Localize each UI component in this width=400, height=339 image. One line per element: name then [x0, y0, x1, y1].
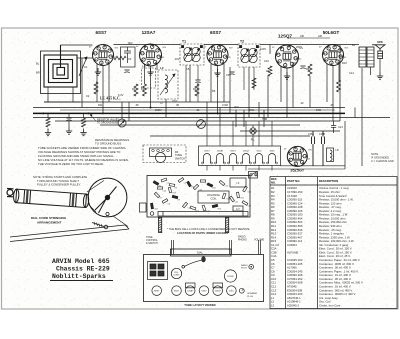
wire [47, 113, 49, 118]
svg-text:C2: C2 [167, 182, 169, 184]
wire [281, 165, 346, 167]
svg-text:VOL.: VOL. [174, 272, 179, 274]
tone cap C13 [331, 121, 336, 133]
junction [102, 112, 104, 114]
svg-text:250V: 250V [296, 45, 302, 49]
under-chassis captions [167, 227, 250, 235]
svg-text:R11: R11 [98, 103, 103, 107]
svg-text:DIAL: DIAL [197, 251, 203, 255]
svg-text:3: 3 [327, 54, 328, 56]
part p11 [190, 206, 196, 210]
svg-text:.05: .05 [135, 103, 139, 107]
under-chassis parts box [147, 176, 250, 218]
part p6 [200, 180, 205, 182]
svg-text:R4: R4 [193, 87, 197, 91]
svg-text:.05: .05 [330, 103, 334, 107]
resistor R2 [134, 84, 138, 96]
svg-text:IF GROUNDED: IF GROUNDED [371, 156, 389, 160]
title underline [50, 280, 113, 282]
svg-text:6: 6 [107, 52, 108, 54]
svg-text:T2: T2 [240, 40, 244, 44]
svg-text:7: 7 [222, 56, 223, 58]
svg-text:AR: AR [300, 34, 304, 38]
svg-text:2: 2 [212, 58, 213, 60]
speaker SPK [372, 45, 385, 49]
wire [271, 121, 273, 146]
svg-text:2: 2 [98, 58, 99, 60]
ground [95, 68, 101, 75]
svg-text:NO.: NO. [271, 180, 276, 184]
svg-text:R23: R23 [227, 198, 230, 200]
svg-text:C24: C24 [163, 190, 166, 192]
svg-text:70M: 70M [262, 117, 267, 121]
tube V6 [284, 146, 313, 166]
part p18 [242, 201, 248, 206]
arrow to buss [90, 115, 96, 122]
svg-text:5: 5 [300, 152, 301, 154]
wire [245, 166, 247, 171]
svg-text:C16: C16 [248, 191, 251, 193]
svg-text:3: 3 [280, 55, 281, 57]
part p1 [153, 181, 159, 186]
svg-text:2: 2 [292, 158, 293, 160]
parts table header [271, 177, 338, 184]
svg-text:1: 1 [296, 161, 297, 163]
ground [80, 129, 86, 136]
svg-text:4: 4 [283, 51, 284, 53]
wire [108, 64, 110, 102]
svg-text:C22: C22 [235, 201, 238, 203]
svg-text:R3: R3 [175, 187, 177, 189]
svg-text:7: 7 [156, 56, 157, 58]
part p7 [154, 192, 159, 197]
resistor R5 [114, 56, 126, 60]
wire [156, 63, 158, 70]
note text block [38, 138, 129, 166]
coupling box [121, 47, 136, 67]
svg-text:PULLEY & CONDENSER PULLEY.: PULLEY & CONDENSER PULLEY. [37, 183, 81, 187]
svg-text:R7: R7 [266, 69, 270, 73]
svg-text:R13: R13 [218, 208, 221, 210]
svg-text:Chassis RE-229: Chassis RE-229 [56, 266, 110, 273]
wire [258, 121, 260, 146]
svg-text:6SS7: 6SS7 [95, 30, 107, 35]
wire [197, 83, 199, 103]
svg-text:Noblitt-Sparks: Noblitt-Sparks [52, 273, 106, 280]
svg-text:A35045-2: A35045-2 [287, 303, 300, 307]
svg-text:IM: IM [176, 103, 179, 107]
svg-text:C10: C10 [264, 59, 269, 63]
svg-text:C13: C13 [338, 125, 343, 129]
side box left [140, 203, 147, 212]
wire [248, 67, 250, 118]
resistor R13 [94, 82, 98, 94]
part p15 [236, 192, 239, 198]
wire [248, 168, 345, 170]
post [172, 240, 174, 255]
wire [210, 64, 212, 102]
ground buss [33, 112, 345, 114]
svg-text:PART NO.: PART NO. [287, 179, 300, 183]
svg-text:3: 3 [97, 54, 98, 56]
part p22 [230, 196, 235, 202]
wire [292, 66, 294, 108]
chassis bar [158, 212, 248, 217]
wire [102, 66, 104, 114]
capacitor C6 [66, 118, 71, 121]
wire [206, 166, 208, 171]
IF transformer T1 [180, 44, 204, 65]
electrolytic C15B [322, 131, 325, 166]
svg-text:6: 6 [155, 51, 156, 53]
wire [240, 130, 340, 132]
svg-text:3: 3 [144, 54, 145, 56]
svg-text:.0001: .0001 [248, 108, 255, 112]
switch SW [250, 172, 258, 176]
bias cell box L4 [142, 68, 156, 88]
title ARVIN Model 665 [52, 258, 110, 280]
tone control caption [146, 236, 158, 245]
svg-text:L3: L3 [271, 303, 275, 307]
tuning shaft drum [13, 189, 89, 208]
tuning arrow [79, 57, 87, 76]
wire [232, 121, 234, 146]
svg-text:4: 4 [147, 50, 148, 52]
svg-text:CONT.: CONT. [173, 275, 180, 277]
svg-text:100V: 100V [260, 47, 266, 51]
svg-text:6: 6 [337, 52, 338, 54]
svg-text:ARRANGEMENT: ARRANGEMENT [37, 220, 62, 224]
part p5 [187, 181, 192, 187]
wire [326, 64, 328, 102]
svg-text:AVC: AVC [234, 105, 239, 109]
resistor R9 [82, 118, 86, 127]
wire [204, 44, 238, 46]
svg-text:OSC: OSC [172, 99, 178, 103]
svg-text:COND.: COND. [227, 276, 234, 278]
wire [252, 125, 254, 128]
svg-text:R19: R19 [173, 192, 176, 194]
wire [252, 134, 254, 146]
part p24 [157, 187, 162, 189]
wire [68, 113, 70, 118]
svg-text:BL: BL [36, 62, 40, 66]
svg-text:NOTE: NOTE [371, 152, 378, 156]
mounting post [159, 218, 162, 233]
svg-text:C3: C3 [128, 57, 132, 61]
dial cord caption [31, 216, 67, 224]
wire [354, 108, 356, 118]
condenser pulley [88, 178, 127, 217]
wire [338, 64, 340, 80]
svg-text:C18: C18 [248, 205, 251, 207]
svg-text:R9: R9 [178, 199, 180, 201]
ground [45, 129, 51, 136]
svg-text:R3: R3 [141, 87, 145, 91]
ground [214, 69, 220, 76]
junction [150, 107, 152, 109]
wire [60, 109, 335, 111]
svg-text:-10V: -10V [174, 57, 180, 61]
wire [33, 107, 345, 109]
svg-text:2: 2 [328, 58, 329, 60]
wire [144, 64, 146, 84]
wire [245, 121, 247, 146]
IF box [230, 178, 246, 187]
capacitor C4 [124, 70, 129, 73]
wire [344, 121, 346, 169]
svg-text:C9: C9 [226, 73, 230, 77]
wire [271, 166, 273, 171]
part p10 [182, 202, 187, 208]
junction [217, 112, 219, 114]
svg-text:1: 1 [101, 60, 102, 62]
wire [258, 166, 260, 171]
electrolytic C15A [312, 131, 315, 166]
wire [185, 65, 187, 102]
wire [260, 44, 359, 46]
wire [219, 121, 221, 146]
resistor R6 [337, 80, 341, 92]
svg-text:C4: C4 [184, 182, 186, 184]
wire [235, 110, 237, 127]
svg-text:C = CHASSIS GND: C = CHASSIS GND [371, 159, 394, 163]
part p3 [169, 183, 175, 186]
wire [332, 66, 334, 122]
svg-text:COIL: COIL [210, 197, 217, 201]
speaker plug circle [239, 288, 244, 293]
wire [114, 44, 181, 46]
svg-text:R8: R8 [306, 67, 310, 71]
dial note text [33, 175, 87, 187]
wire [217, 66, 219, 114]
volume control R1 [118, 119, 126, 127]
part p17 [150, 203, 153, 209]
dial cord pointer [182, 257, 205, 268]
resistor R3 [143, 84, 147, 96]
loop antenna L1 [41, 45, 81, 94]
wire [68, 121, 70, 128]
svg-text:L2: L2 [160, 66, 164, 70]
svg-text:PLUG: PLUG [247, 296, 253, 298]
svg-text:5: 5 [288, 50, 289, 52]
power unit box [148, 262, 168, 280]
junction [88, 112, 90, 114]
wire [361, 68, 363, 166]
svg-text:C7: C7 [160, 101, 164, 105]
svg-text:7: 7 [300, 160, 301, 162]
wire [81, 58, 83, 108]
control R3 [197, 120, 206, 129]
note right [371, 152, 394, 163]
svg-text:SWITCH: SWITCH [175, 157, 185, 160]
part p9 [172, 195, 178, 199]
svg-text:7: 7 [108, 56, 109, 58]
svg-text:5: 5 [218, 49, 219, 51]
svg-text:AR: AR [318, 34, 322, 38]
wire [223, 64, 225, 102]
svg-text:C5: C5 [186, 67, 190, 71]
wire [44, 101, 230, 103]
wire [229, 67, 231, 113]
svg-text:R7: R7 [160, 197, 162, 199]
capacitor C8 [229, 72, 234, 75]
svg-text:220M: 220M [155, 108, 162, 112]
volume control circle [171, 268, 181, 278]
resistor R8 [308, 64, 312, 76]
part p13 [212, 204, 218, 208]
ground [284, 72, 290, 79]
svg-text:5: 5 [334, 49, 335, 51]
clevis eye [7, 189, 14, 197]
svg-text:2: 2 [281, 60, 282, 62]
svg-text:I.F.: I.F. [236, 182, 240, 185]
svg-text:6SS7: 6SS7 [204, 151, 210, 153]
tube circles row [152, 283, 236, 295]
svg-text:7: 7 [293, 58, 294, 60]
ground [66, 127, 72, 134]
svg-text:L8: L8 [336, 148, 340, 152]
svg-text:15M: 15M [316, 108, 321, 112]
part p4 [178, 178, 184, 183]
part p14 [219, 180, 225, 185]
wire [33, 117, 390, 119]
wire [165, 99, 167, 118]
wire [128, 102, 130, 121]
wire [219, 166, 221, 171]
output transformer T3 [359, 47, 374, 67]
svg-text:12SA7: 12SA7 [142, 30, 156, 35]
tube layout box [144, 255, 264, 302]
wire [243, 67, 245, 90]
oscillator coil L2 [158, 70, 178, 99]
svg-text:6SS7: 6SS7 [230, 151, 236, 153]
svg-text:R10: R10 [342, 61, 347, 65]
svg-text:RADIO: RADIO [241, 264, 248, 267]
junction [42, 112, 44, 114]
svg-text:8: 8 [105, 59, 106, 61]
colonial coil box [198, 191, 229, 203]
svg-text:1: 1 [331, 60, 332, 62]
resistor R14 [252, 78, 256, 88]
ground [147, 68, 153, 75]
resistor R12 [46, 118, 50, 127]
svg-text:2: 2 [145, 58, 146, 60]
parts table frame [270, 177, 397, 309]
svg-text:8: 8 [290, 62, 291, 64]
svg-text:C20: C20 [199, 189, 202, 191]
svg-text:4: 4 [329, 50, 330, 52]
svg-text:C15A: C15A [308, 133, 314, 136]
svg-text:12SA7: 12SA7 [217, 150, 224, 153]
svg-text:R17: R17 [155, 208, 158, 210]
wire [379, 59, 381, 73]
svg-text:C32004: C32004 [287, 243, 297, 247]
svg-text:12SA7: 12SA7 [187, 290, 194, 293]
wire [243, 110, 245, 127]
pilot light P.L. [250, 128, 256, 134]
svg-text:4: 4 [99, 50, 100, 52]
capacitor C9b [195, 80, 200, 83]
part p19 [168, 187, 172, 193]
svg-text:90V: 90V [128, 41, 133, 45]
voice coil [378, 49, 383, 59]
svg-text:8: 8 [220, 59, 221, 61]
chassis edge lines [10, 225, 129, 242]
svg-text:50L6: 50L6 [257, 151, 263, 153]
svg-text:COLONIAL: COLONIAL [207, 193, 221, 197]
part p2 [161, 178, 167, 182]
wire [83, 113, 85, 118]
post [259, 240, 261, 255]
svg-text:C14: C14 [349, 71, 354, 75]
svg-text:6: 6 [222, 52, 223, 54]
part p16 [243, 186, 248, 192]
wire [100, 124, 300, 126]
wire [206, 102, 208, 121]
svg-text:3.3M: 3.3M [222, 103, 228, 107]
post [230, 240, 232, 255]
wire [150, 135, 310, 137]
wire [253, 67, 255, 90]
svg-text:C15B: C15B [319, 133, 325, 136]
wire [96, 64, 98, 102]
wire [206, 121, 208, 146]
svg-text:8: 8 [335, 59, 336, 61]
svg-text:R21: R21 [213, 187, 216, 189]
svg-text:ARVIN Model 665: ARVIN Model 665 [52, 258, 110, 265]
wire [287, 37, 330, 39]
mounting post [226, 218, 229, 233]
svg-text:35Z5: 35Z5 [270, 151, 276, 153]
bolt head left [150, 212, 154, 216]
svg-text:1: 1 [149, 61, 150, 63]
dial bar [171, 249, 232, 256]
svg-text:T1: T1 [182, 40, 186, 44]
part p12 [202, 205, 206, 211]
svg-text:4: 4 [214, 50, 215, 52]
svg-text:& SWITCH: & SWITCH [146, 242, 158, 245]
wire [61, 44, 93, 46]
tone control box R3 [143, 145, 186, 163]
svg-text:50L6GT: 50L6GT [323, 30, 340, 35]
svg-text:C2: C2 [86, 94, 90, 98]
svg-text:12SQ7: 12SQ7 [243, 151, 251, 153]
svg-text:DIAL CORD STRINGING: DIAL CORD STRINGING [31, 216, 67, 220]
svg-text:6SS7: 6SS7 [210, 30, 222, 35]
svg-text:3: 3 [212, 54, 213, 56]
wire [232, 166, 234, 171]
wire [263, 110, 265, 127]
svg-text:PHONO: PHONO [238, 239, 247, 242]
svg-text:6: 6 [292, 53, 293, 55]
svg-text:SPEAKER: SPEAKER [247, 292, 257, 295]
svg-text:TUBE LAYOUT VIEWED: TUBE LAYOUT VIEWED [184, 303, 215, 307]
svg-text:4: 4 [296, 151, 297, 153]
wire loop to bus [44, 87, 80, 102]
svg-text:R5: R5 [212, 89, 216, 93]
svg-text:Choke, Iron Core: Choke, Iron Core [319, 303, 341, 307]
wire [370, 67, 372, 75]
svg-text:PLUG: PLUG [241, 268, 247, 270]
svg-text:.02: .02 [300, 101, 304, 105]
wire [339, 45, 341, 122]
svg-text:SPK: SPK [377, 40, 383, 44]
svg-text:B+: B+ [352, 43, 356, 47]
svg-text:12SQ7: 12SQ7 [215, 291, 222, 293]
wire [55, 120, 340, 122]
part p23 [222, 193, 226, 199]
